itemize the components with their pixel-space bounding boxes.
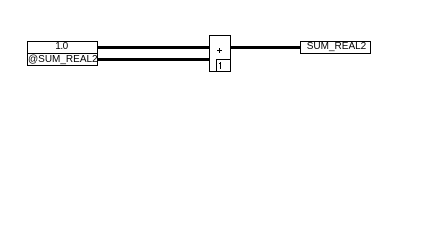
- pin number 1 : flag: [219, 63, 220, 64]
- variable box @SUM_REAL2 (left operand box): [27, 41, 98, 66]
- output variable name SUM_REAL2: [302, 42, 371, 52]
- wire from @SUM_REAL2 box pin1 to adder input 1: [98, 46, 209, 49]
- op symbol + : vertical bar: [219, 48, 220, 53]
- op symbol + : horizontal bar: [217, 50, 222, 51]
- wire from @SUM_REAL2 box pin2 to adder input 2: [98, 58, 209, 61]
- pin number 1 : stem: [220, 62, 221, 69]
- divider line in left box: [27, 53, 98, 54]
- output variable box SUM_REAL2: [300, 41, 371, 54]
- adder block U1: [209, 35, 231, 72]
- wire from adder output to SUM_REAL2 box: [231, 46, 300, 49]
- inner pin box of adder: [216, 59, 231, 72]
- variable name @SUM_REAL2: [28, 55, 97, 65]
- value label 1.0: [27, 42, 96, 52]
